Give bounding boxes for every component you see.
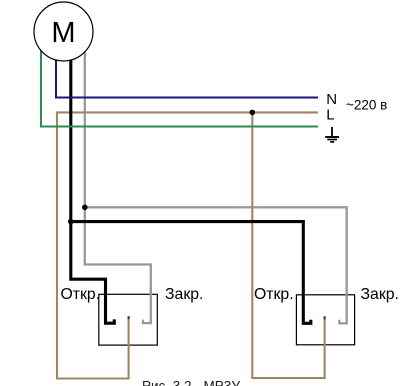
- motor M: [34, 2, 93, 61]
- caption (clipped at bottom edge): [142, 379, 240, 386]
- svg-text:N: N: [326, 91, 337, 108]
- svg-text:Откр.: Откр.: [61, 286, 101, 303]
- switch S1 box (left): [99, 294, 158, 345]
- switch S2 box (right): [296, 295, 354, 345]
- wire brown branch to right switch common: [252, 112, 324, 378]
- wire gray motor to left switch contact Zakr: [85, 50, 151, 323]
- svg-text:~220 в: ~220 в: [346, 97, 387, 112]
- wire black branch to right switch contact Otkr: [71, 222, 311, 324]
- switch S2 label Otkr: [254, 286, 294, 303]
- ground symbol: [325, 127, 339, 142]
- terminal label L: [326, 107, 334, 124]
- switch S1 label Zakr: [165, 286, 203, 303]
- wire N (blue) motor to terminal N: [56, 58, 318, 98]
- switch S1 common pivot tip: [128, 316, 130, 319]
- terminal label N: [326, 91, 337, 108]
- wire L (brown) terminal L to left switch common: [57, 112, 318, 378]
- value label ~220 V: [346, 97, 387, 112]
- svg-text:Рис. 3.2 - МР3У: Рис. 3.2 - МР3У: [142, 379, 240, 386]
- svg-text:Откр.: Откр.: [254, 286, 294, 303]
- svg-text:M: M: [51, 17, 75, 49]
- svg-text:L: L: [326, 107, 334, 124]
- wire gray branch to right switch contact Zakr: [85, 207, 347, 323]
- junction on black wire: [68, 219, 74, 225]
- wire PE (green) motor to earth terminal: [41, 48, 318, 127]
- svg-text:Закр.: Закр.: [165, 286, 203, 303]
- switch S2 common pivot tip: [324, 316, 326, 319]
- switch S2 label Zakr: [361, 286, 399, 303]
- junction on L wire: [250, 110, 256, 116]
- svg-text:Закр.: Закр.: [361, 286, 399, 303]
- junction on gray wire: [82, 205, 88, 211]
- switch S1 label Otkr: [61, 286, 101, 303]
- wire black motor to left switch contact Otkr: [71, 58, 115, 323]
